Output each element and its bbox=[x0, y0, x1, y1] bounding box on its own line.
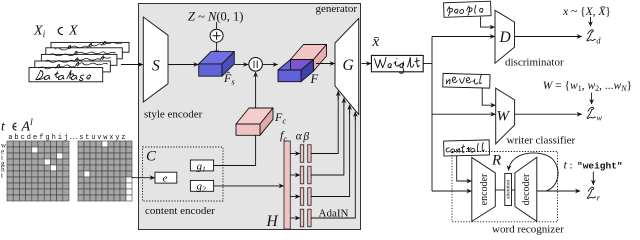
wire S to Fs bbox=[168, 64, 198, 66]
svg-text:writer classifier: writer classifier bbox=[507, 135, 576, 147]
Database cursive in front box bbox=[35, 70, 92, 80]
svg-text:t: t bbox=[1, 172, 3, 180]
one-hot grid left bbox=[7, 141, 69, 201]
svg-text:x̄: x̄ bbox=[372, 34, 380, 50]
svg-text:x ~ {X, X̄}: x ~ {X, X̄} bbox=[562, 5, 611, 18]
svg-text:S: S bbox=[152, 57, 160, 74]
concat node bbox=[249, 58, 263, 72]
Weight cursive bbox=[375, 57, 420, 73]
wire branch to W bbox=[432, 113, 495, 115]
svg-text:α: α bbox=[296, 131, 303, 143]
embedding e box bbox=[155, 172, 177, 183]
wire Fs to concat bbox=[235, 64, 248, 66]
node Xi subset X label bbox=[33, 24, 78, 41]
svg-text:G: G bbox=[343, 57, 354, 74]
wire Z to oplus bbox=[216, 22, 218, 29]
people sample box bbox=[444, 1, 491, 17]
svg-text:R: R bbox=[491, 153, 501, 169]
node t in A^l label bbox=[1, 118, 33, 135]
g2 box bbox=[190, 180, 213, 191]
wire grid to e bbox=[132, 177, 155, 179]
wire control to encoder bbox=[457, 156, 472, 181]
svg-text:C: C bbox=[146, 148, 157, 164]
branch vertical wire bbox=[431, 37, 433, 192]
grid row labels weight bbox=[1, 142, 7, 180]
svg-text:H: H bbox=[266, 213, 279, 230]
svg-text:W: W bbox=[497, 108, 511, 124]
svg-text:...: ... bbox=[69, 134, 78, 142]
wire encoder to attention bbox=[495, 189, 505, 191]
feedback loop bbox=[509, 153, 559, 191]
wire stack to S bbox=[121, 64, 143, 66]
svg-text:F: F bbox=[310, 72, 319, 86]
wire xbar to branch bbox=[423, 63, 432, 65]
svg-text:w: w bbox=[597, 113, 603, 123]
loss Ld bbox=[587, 30, 595, 41]
g1 box bbox=[190, 160, 213, 171]
wire branch to D bbox=[432, 36, 495, 38]
style image stack boxes bbox=[29, 42, 129, 81]
wire to Ld bbox=[590, 17, 592, 26]
svg-text:generator: generator bbox=[315, 3, 357, 15]
wire to Lr bbox=[592, 172, 594, 185]
content feature Fc (pink box) bbox=[236, 108, 273, 135]
generator G bbox=[335, 19, 359, 115]
svg-text:d: d bbox=[596, 35, 601, 45]
svg-text:decoder: decoder bbox=[521, 173, 532, 205]
control sample box bbox=[444, 140, 490, 156]
svg-text:attention: attention bbox=[506, 180, 512, 199]
wire W to Lw bbox=[515, 113, 582, 115]
wire branch to encoder bbox=[432, 190, 471, 192]
svg-text:X: X bbox=[68, 24, 78, 39]
wire D to Ld bbox=[515, 36, 582, 38]
wire decoder to Lr bbox=[537, 190, 580, 192]
wire g2 to fc bar bbox=[214, 185, 284, 187]
svg-text:W = {w1, w2, ...wN}: W = {w1, w2, ...wN} bbox=[543, 80, 632, 93]
svg-text:abcdefghij: abcdefghij bbox=[8, 134, 70, 142]
fc tall bar bbox=[284, 141, 290, 229]
wire g1 to Fc bbox=[214, 135, 256, 165]
never sample box bbox=[443, 73, 490, 88]
svg-text:Z ~ N(0, 1): Z ~ N(0, 1) bbox=[188, 10, 243, 24]
wire attention to decoder bbox=[512, 189, 515, 191]
handwriting squiggles in stack bbox=[38, 41, 122, 68]
wire panel to xbar box bbox=[362, 63, 371, 65]
oplus bbox=[210, 29, 223, 42]
loss Lr bbox=[587, 187, 595, 198]
discriminator D bbox=[495, 10, 515, 63]
xbar word box bbox=[371, 55, 423, 71]
wire Fc up to concat bbox=[255, 72, 257, 112]
svg-text:stuvwxyz: stuvwxyz bbox=[79, 134, 127, 142]
svg-text:t :: t : bbox=[564, 160, 573, 172]
writer classifier W bbox=[496, 88, 515, 144]
content encoder dotted box bbox=[143, 147, 224, 201]
svg-text:encoder: encoder bbox=[479, 173, 490, 205]
AdaIN rows bbox=[290, 91, 355, 226]
svg-text:AdaIN: AdaIN bbox=[319, 208, 349, 220]
wire concat to F bbox=[262, 64, 278, 66]
svg-text:style encoder: style encoder bbox=[144, 109, 203, 121]
svg-text:discriminator: discriminator bbox=[505, 56, 564, 68]
feature box F (blue+pink) bbox=[278, 45, 327, 82]
wire never to W bbox=[482, 88, 495, 105]
generator panel background bbox=[139, 4, 361, 230]
svg-text:"weight": "weight" bbox=[577, 161, 623, 172]
loss Lw bbox=[587, 107, 595, 118]
wire people to D bbox=[481, 17, 495, 27]
svg-text:content encoder: content encoder bbox=[145, 205, 215, 217]
svg-text:e: e bbox=[163, 173, 168, 185]
encoder trapezoid bbox=[472, 157, 496, 221]
wire oplus to Fs bbox=[216, 42, 218, 54]
style encoder S bbox=[143, 17, 168, 102]
wire to Lw bbox=[591, 93, 593, 105]
decoder trapezoid bbox=[515, 157, 537, 221]
wire F to G bbox=[316, 63, 335, 65]
svg-text:D: D bbox=[499, 29, 511, 46]
word recognizer dotted box bbox=[452, 152, 558, 222]
svg-text:word recognizer: word recognizer bbox=[492, 224, 564, 236]
one-hot grid right bbox=[78, 141, 132, 201]
feature box Fs (blue) bbox=[199, 52, 235, 77]
attention box bbox=[505, 174, 512, 206]
svg-text:β: β bbox=[302, 131, 309, 143]
